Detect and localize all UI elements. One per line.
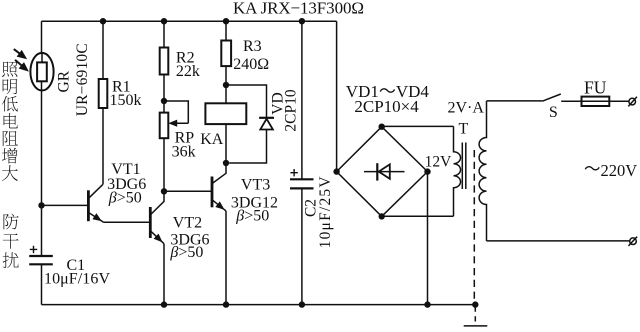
node rail-R1 bbox=[100, 18, 106, 24]
wire KA to VT3 collector bbox=[225, 124, 227, 163]
wire switch to fuse bbox=[561, 100, 581, 102]
wire left branch bottom bbox=[41, 264, 43, 304]
svg-text:2CP10×4: 2CP10×4 bbox=[354, 97, 419, 116]
transformer T core bbox=[462, 143, 466, 190]
wire R3 top bbox=[225, 21, 227, 40]
wire RP to VT3 base node bbox=[163, 138, 165, 191]
node VT1 base junction bbox=[38, 202, 44, 208]
transformer shield dashed line bbox=[474, 150, 475, 322]
svg-text:2V·A: 2V·A bbox=[448, 100, 485, 117]
svg-text:2CP10: 2CP10 bbox=[282, 89, 299, 131]
wire VT3 base lead bbox=[164, 190, 211, 192]
wire left branch lower bbox=[41, 81, 43, 256]
wire C2 top bbox=[301, 21, 303, 179]
node R2-RP junction bbox=[161, 98, 167, 104]
svg-text:VT2: VT2 bbox=[173, 215, 202, 232]
node bridge left bbox=[333, 168, 339, 174]
svg-text:VT3: VT3 bbox=[241, 176, 270, 193]
node rail-R2 bbox=[161, 18, 167, 24]
svg-text:β>50: β>50 bbox=[108, 190, 142, 207]
node ground rail C2 bbox=[299, 301, 305, 307]
node bridge right bbox=[424, 168, 430, 174]
relay coil KA bbox=[205, 103, 246, 124]
node ground rail VT3 bbox=[223, 301, 229, 307]
wire VT1 base lead bbox=[42, 204, 88, 206]
transistor VT1 bbox=[88, 184, 103, 222]
transistor VT2 bbox=[150, 191, 164, 243]
wire VD branch top bbox=[226, 85, 267, 118]
svg-text:R3: R3 bbox=[243, 38, 262, 55]
node rail-R3 bbox=[223, 18, 229, 24]
wire C2 bottom bbox=[301, 188, 303, 304]
wire R1 to VT1 collector bbox=[102, 108, 104, 184]
transformer T secondary winding bbox=[454, 126, 461, 216]
svg-text:36k: 36k bbox=[172, 143, 196, 160]
terminal 220V neutral bbox=[629, 237, 638, 246]
photoresistor GR bbox=[30, 53, 53, 91]
diode VD bbox=[259, 118, 274, 130]
svg-text:10μF/25V: 10μF/25V bbox=[317, 176, 334, 249]
resistor R3 bbox=[221, 41, 231, 67]
potentiometer RP bbox=[160, 101, 189, 138]
node ground rail VT2 bbox=[161, 301, 167, 307]
svg-text:β>50: β>50 bbox=[235, 208, 269, 225]
wire primary top to switch bbox=[487, 100, 543, 102]
wire left branch top bbox=[41, 21, 43, 53]
svg-text:10μF/16V: 10μF/16V bbox=[44, 271, 110, 288]
node ground rail shield bbox=[472, 301, 478, 307]
svg-text:～220V: ～220V bbox=[584, 159, 637, 180]
capacitor C1 bbox=[29, 246, 53, 265]
wire VT3 emitter down bbox=[225, 211, 227, 305]
node bridge bottom bbox=[379, 213, 385, 219]
node VT2 collector - VT3 base bbox=[161, 188, 167, 194]
resistor R2 bbox=[160, 48, 169, 75]
node KA-VD-VT3 junction bbox=[223, 160, 229, 166]
wire VD branch bottom bbox=[229, 130, 266, 164]
wire fuse to live terminal bbox=[609, 100, 629, 102]
svg-text:12V: 12V bbox=[425, 153, 453, 170]
svg-text:240Ω: 240Ω bbox=[233, 56, 269, 73]
svg-text:T: T bbox=[459, 121, 469, 138]
transformer T primary winding bbox=[479, 101, 486, 241]
wire primary bottom to neutral terminal bbox=[487, 240, 630, 242]
node ground rail bridge bbox=[424, 301, 430, 307]
svg-text:KA: KA bbox=[200, 131, 224, 148]
svg-text:22k: 22k bbox=[176, 63, 200, 80]
label caption 照明低电阻增大 bbox=[2, 62, 18, 181]
switch S bbox=[542, 94, 561, 101]
svg-text:FU: FU bbox=[584, 78, 607, 98]
svg-text:KA JRX−13F300Ω: KA JRX−13F300Ω bbox=[233, 0, 364, 18]
wire R2 top bbox=[163, 21, 165, 47]
svg-text:β>50: β>50 bbox=[169, 244, 203, 261]
wire bridge right to ground rail bbox=[427, 172, 429, 305]
svg-text:S: S bbox=[549, 104, 558, 121]
wire R2 to RP bbox=[163, 75, 165, 113]
wire top supply rail bbox=[42, 20, 337, 22]
wire bridge top to transformer bbox=[382, 125, 454, 127]
ground bbox=[464, 325, 488, 327]
label caption 防干扰 bbox=[3, 214, 19, 268]
terminal 220V live bbox=[628, 97, 637, 107]
node bridge top bbox=[379, 124, 385, 130]
svg-text:UR−6910C: UR−6910C bbox=[74, 43, 91, 116]
wire VT1 emitter to VT2 base bbox=[104, 221, 150, 223]
svg-text:GR: GR bbox=[55, 70, 72, 92]
fuse FU bbox=[582, 97, 610, 106]
wire R3 to KA bbox=[225, 66, 227, 103]
wire bottom ground rail bbox=[42, 304, 476, 306]
wire R1 top bbox=[102, 21, 104, 79]
wire VT2 emitter down bbox=[163, 244, 165, 305]
node rail-C2 bbox=[299, 18, 305, 24]
resistor R1 bbox=[99, 79, 108, 108]
transistor VT3 bbox=[212, 163, 226, 211]
bridge rectifier VD1-VD4 bbox=[337, 127, 428, 217]
capacitor C2 bbox=[290, 169, 314, 188]
light arrows at GR bbox=[14, 49, 28, 71]
svg-text:150k: 150k bbox=[110, 92, 142, 109]
node R3-VD junction bbox=[223, 82, 229, 88]
wire rail down to bridge bbox=[336, 21, 338, 171]
wire bridge bottom to transformer bbox=[382, 215, 454, 217]
